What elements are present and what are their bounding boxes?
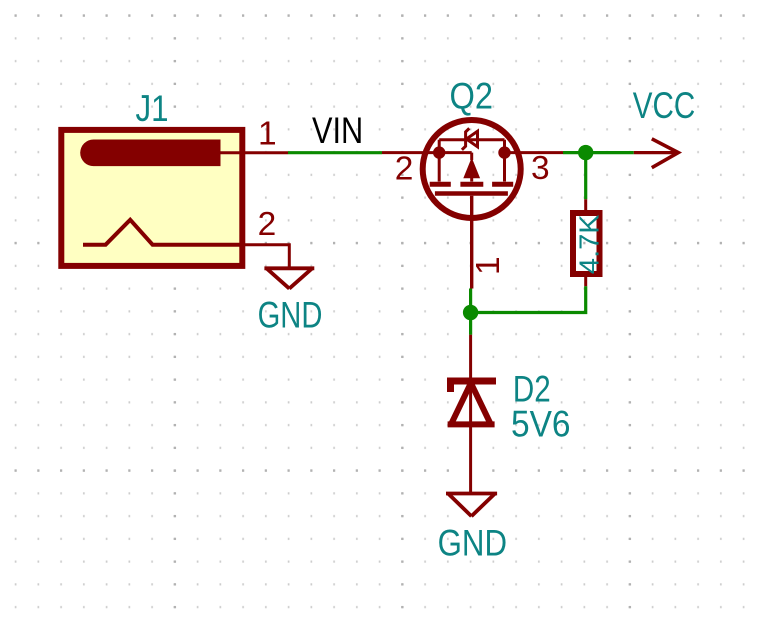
wire to VCC [563,151,634,154]
junction node gate [463,305,478,320]
resistor 4.7K [573,199,600,286]
svg-text:5V6: 5V6 [511,403,571,445]
svg-text:3: 3 [531,150,550,187]
svg-text:1: 1 [258,116,277,153]
junction node VCC [578,145,593,160]
wire VIN [288,151,382,154]
svg-text:Q2: Q2 [450,75,494,117]
J1 pin 1 stub [245,151,288,154]
J1 pin 2 stub [245,245,289,268]
svg-text:J1: J1 [136,87,169,129]
wire VCC to resistor [584,153,587,200]
zener diode D2 [448,335,496,493]
transistor Q2 [382,120,563,289]
power symbol VCC arrow [634,139,679,168]
ground symbol GND1 [264,268,314,288]
wire resistor to node [471,286,586,312]
svg-text:2: 2 [395,151,414,188]
wire gate to node [469,289,472,335]
ground symbol GND2 [446,494,497,517]
svg-text:VCC: VCC [633,84,695,126]
svg-text:GND: GND [258,293,323,335]
svg-text:2: 2 [258,206,277,243]
svg-text:4.7K: 4.7K [573,214,604,274]
connector J1 body [61,130,245,266]
svg-text:1: 1 [470,256,507,275]
svg-text:GND: GND [438,521,507,563]
svg-text:VIN: VIN [312,109,363,151]
